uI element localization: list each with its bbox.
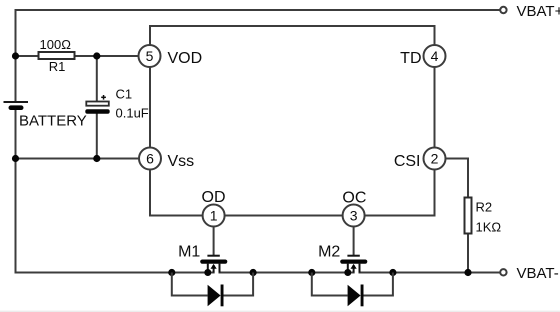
svg-text:C1: C1 — [116, 87, 133, 102]
svg-text:OD: OD — [202, 189, 226, 206]
svg-text:1: 1 — [210, 208, 218, 224]
transistor M2 — [318, 227, 365, 277]
node R2 / bottom rail — [464, 269, 471, 276]
svg-text:VOD: VOD — [168, 50, 203, 67]
wire gate lead from pin 3 — [353, 227, 355, 256]
svg-text:4: 4 — [431, 48, 439, 64]
svg-text:R2: R2 — [476, 199, 493, 214]
svg-text:6: 6 — [146, 151, 154, 167]
svg-text:CSI: CSI — [394, 153, 421, 170]
wire bottom rail segment C — [359, 272, 500, 274]
node row2 / left wire — [12, 155, 19, 162]
battery BATTERY — [4, 102, 87, 130]
wire R2 to bottom rail — [467, 234, 469, 273]
wire pin2 to R2 — [446, 159, 469, 198]
svg-text:BATTERY: BATTERY — [19, 113, 87, 130]
svg-text:VBAT-: VBAT- — [517, 265, 559, 282]
svg-text:OC: OC — [342, 189, 366, 206]
diode D1 body diode of M1 — [168, 269, 257, 306]
resistor R2 — [465, 198, 502, 235]
pin 4 TD — [400, 45, 445, 67]
svg-text:5: 5 — [146, 48, 154, 64]
svg-text:3: 3 — [350, 208, 358, 224]
wire gate lead from pin 1 — [213, 227, 215, 256]
svg-text:2: 2 — [431, 151, 439, 167]
wire top row to R1 — [16, 55, 39, 57]
wire C1 bottom branch — [96, 114, 98, 159]
node row2 / C1 — [93, 155, 100, 162]
diode D2 body diode of M2 — [308, 269, 396, 306]
svg-text:VBAT+: VBAT+ — [517, 3, 560, 20]
resistor R1 — [39, 37, 75, 74]
wire left vertical upper — [15, 9, 17, 101]
op IC body outline — [150, 26, 435, 216]
wire top rail to VBAT+ — [16, 9, 500, 11]
svg-text:0.1uF: 0.1uF — [116, 106, 149, 121]
svg-text:Vss: Vss — [168, 153, 195, 170]
wire bottom rail segment A — [16, 272, 215, 274]
pin 5 VOD — [139, 45, 203, 67]
pin 2 CSI — [394, 148, 446, 171]
bottom light border band — [0, 311, 560, 312]
svg-text:1KΩ: 1KΩ — [476, 219, 502, 234]
svg-text:100Ω: 100Ω — [40, 37, 72, 52]
transistor M1 — [178, 227, 225, 277]
pin 6 Vss — [139, 148, 194, 171]
svg-text:M1: M1 — [178, 244, 200, 261]
pin 1 OD — [202, 189, 226, 227]
svg-text:R1: R1 — [49, 59, 66, 74]
wire C1 top branch — [96, 56, 98, 102]
node M1 source / body — [204, 269, 211, 276]
node VBAT- terminal — [500, 265, 559, 282]
node M2 source / body — [344, 269, 351, 276]
node top row / C1 — [93, 52, 100, 59]
wire left vertical lower — [15, 110, 17, 274]
node VBAT+ terminal — [500, 3, 560, 20]
svg-text:M2: M2 — [318, 244, 340, 261]
node top row / left wire — [12, 52, 19, 59]
wire R1 to pin 5 — [75, 55, 140, 57]
pin 3 OC — [342, 189, 366, 226]
wire row2 to pin 6 — [16, 158, 140, 160]
node junction dots left column and rows — [12, 52, 101, 162]
svg-text:TD: TD — [400, 50, 421, 67]
wire bottom rail segment B — [219, 272, 355, 274]
capacitor C1 — [85, 87, 149, 121]
